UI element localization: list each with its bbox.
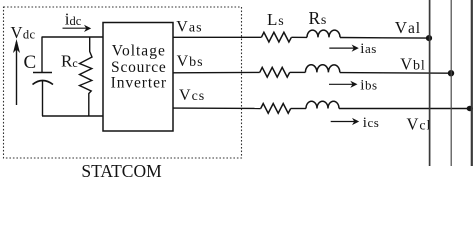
node C junction dot bbox=[467, 106, 473, 111]
current arrow ibs bbox=[329, 83, 353, 85]
node B junction dot bbox=[448, 70, 454, 76]
wire phase B from inverter bbox=[173, 71, 260, 73]
inductor Ls phase A (zigzag) bbox=[261, 32, 291, 42]
svg-text:ics: ics bbox=[363, 115, 380, 131]
resistor Rc bbox=[80, 37, 93, 116]
wire phase C from inverter bbox=[173, 107, 261, 109]
wire bbox=[291, 36, 307, 38]
inductor Ls phase B (zigzag) bbox=[260, 67, 290, 77]
wire top dc link bbox=[42, 36, 103, 38]
wire to bus B bbox=[340, 72, 451, 75]
bus line b bbox=[450, 0, 452, 166]
wire bbox=[291, 108, 306, 110]
wire phase A from inverter bbox=[173, 36, 261, 38]
svg-text:Vbl: Vbl bbox=[400, 55, 425, 74]
svg-text:ias: ias bbox=[360, 41, 377, 57]
node A junction dot bbox=[426, 35, 432, 41]
inductor Ls phase C (zigzag) bbox=[261, 104, 291, 114]
current arrow ics bbox=[331, 121, 355, 123]
capacitor C bbox=[33, 37, 54, 117]
svg-text:STATCOM: STATCOM bbox=[81, 161, 162, 179]
wire bottom dc link bbox=[42, 115, 104, 117]
inverter box U1 bbox=[103, 23, 173, 132]
svg-text:Voltage: Voltage bbox=[112, 43, 166, 60]
svg-text:ibs: ibs bbox=[360, 78, 377, 94]
current arrow ias bbox=[329, 47, 354, 49]
svg-text:C: C bbox=[24, 52, 37, 73]
svg-text:Vbs: Vbs bbox=[177, 53, 204, 70]
bus line a bbox=[429, 0, 431, 166]
resistor Rs phase C (coil) bbox=[306, 101, 339, 108]
svg-text:Rs: Rs bbox=[309, 8, 328, 28]
wire to bus C bbox=[339, 108, 472, 110]
bus line c bbox=[471, 0, 473, 166]
svg-text:Vdc: Vdc bbox=[11, 23, 36, 42]
svg-text:Vcl: Vcl bbox=[407, 114, 432, 133]
resistor Rs phase B (coil) bbox=[305, 65, 339, 73]
resistor Rs phase A (coil) bbox=[307, 30, 340, 37]
svg-text:Inverter: Inverter bbox=[111, 74, 167, 91]
Vdc voltage arrow bbox=[16, 42, 18, 105]
svg-text:Vas: Vas bbox=[176, 18, 202, 35]
STATCOM dashed enclosure bbox=[4, 7, 242, 158]
svg-text:Ls: Ls bbox=[267, 10, 285, 29]
svg-text:Val: Val bbox=[395, 18, 421, 37]
wire bbox=[290, 71, 306, 73]
svg-text:idc: idc bbox=[65, 10, 82, 29]
svg-text:Vcs: Vcs bbox=[179, 87, 205, 104]
idc current arrow bbox=[63, 27, 88, 29]
wire to bus A bbox=[340, 37, 430, 40]
svg-text:Rc: Rc bbox=[61, 52, 78, 71]
